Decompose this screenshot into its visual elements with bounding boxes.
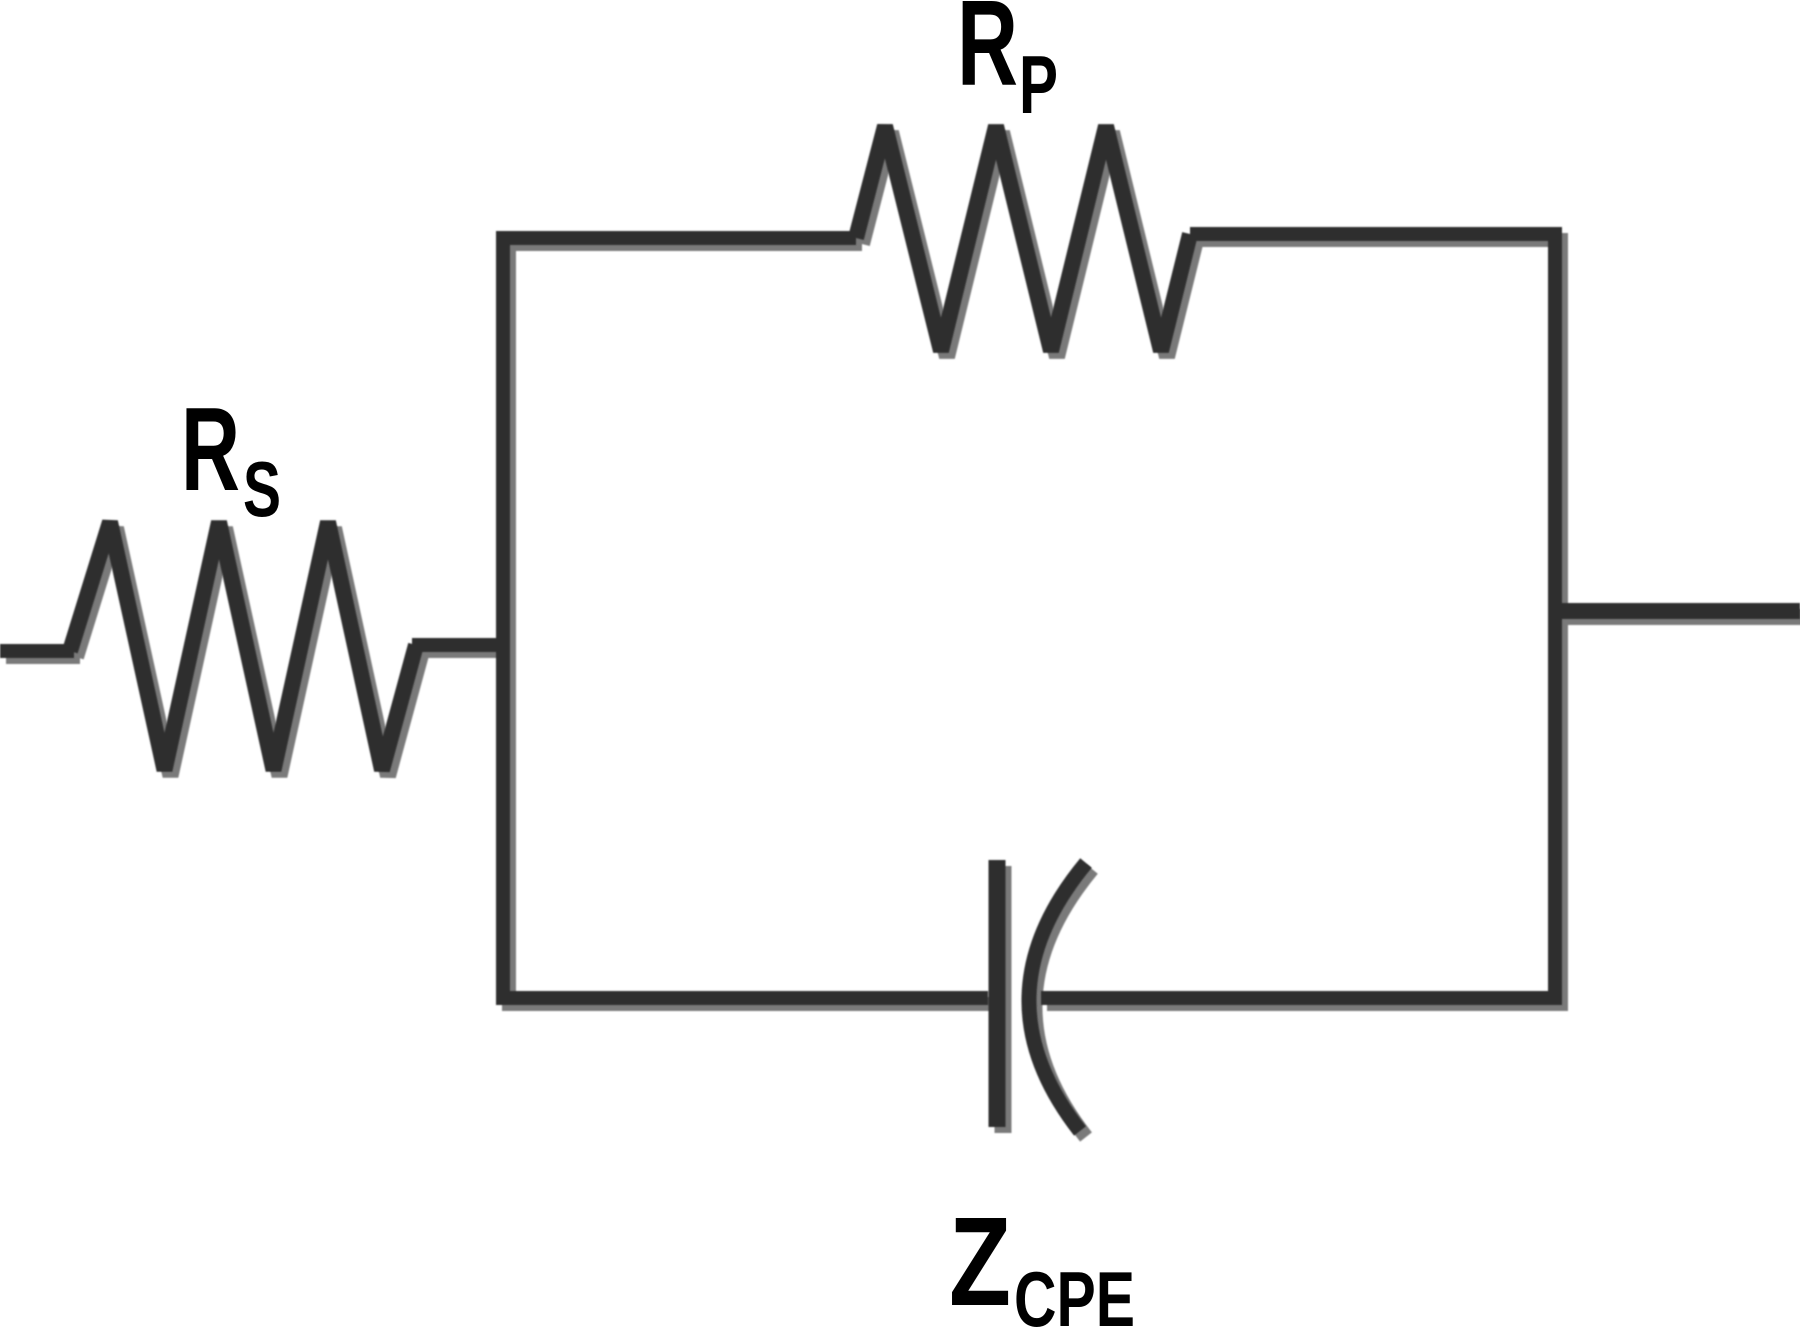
- wire: [76, 528, 422, 776]
- wire: output lead: [1555, 603, 1800, 619]
- arc plate: [1035, 869, 1092, 1137]
- wire: [862, 132, 1196, 357]
- wire: top-left lead, left vertical, bottom-left: [503, 238, 988, 998]
- label ZCPE: [949, 1191, 1135, 1327]
- svg-text:S: S: [243, 445, 281, 533]
- wire: left input lead: [0, 644, 74, 658]
- wire: [509, 244, 994, 1004]
- shadow layer: [6, 132, 1800, 1137]
- wire: [418, 644, 515, 658]
- wire: [6, 650, 80, 664]
- label Rp: [957, 0, 1058, 131]
- wire: [1561, 609, 1800, 625]
- svg-text:CPE: CPE: [1014, 1255, 1135, 1327]
- capacitor ZCPE straight plate: [989, 860, 1006, 1127]
- label RS: [181, 383, 281, 533]
- svg-text:P: P: [1019, 38, 1058, 131]
- wire: [1047, 240, 1561, 1004]
- svg-text:R: R: [181, 383, 240, 516]
- plate: [995, 866, 1012, 1133]
- wire: RS right lead: [412, 638, 509, 652]
- capacitor ZCPE curved plate: [1029, 863, 1086, 1131]
- main layer: [0, 126, 1800, 1131]
- wire: bottom-right, right vertical, top-right: [1041, 234, 1555, 998]
- svg-text:Z: Z: [949, 1191, 1011, 1327]
- resistor Rp: [856, 126, 1190, 351]
- resistor RS: [70, 522, 416, 770]
- svg-text:R: R: [957, 0, 1018, 111]
